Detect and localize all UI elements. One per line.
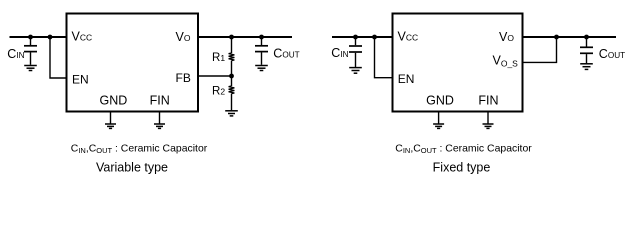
node R1 junction [229,35,234,40]
node Vo_s junction [554,35,559,40]
svg-text:GND: GND [100,94,128,108]
ground COUT right [580,64,593,70]
wire input right [332,36,393,38]
wire GND pin [110,113,112,124]
ground GND pin right [433,124,444,128]
ground COUT [255,66,268,71]
node COUT junction [259,35,264,40]
svg-text:FIN: FIN [150,94,170,108]
ground CIN right [349,68,362,74]
wire input left [10,36,67,38]
svg-text:VO: VO [499,30,514,44]
IC box U1 [67,14,199,112]
capacitor COUT [255,37,268,65]
wire FIN pin right [487,113,489,124]
node CIN junction right [353,35,358,40]
resistor R2 [229,76,235,110]
svg-text:VO_S: VO_S [493,54,519,69]
ground R2 [225,111,238,116]
capacitor CIN right [349,37,362,67]
svg-text:FIN: FIN [478,94,498,108]
wire EN branch [50,37,67,78]
wire FB [198,75,232,77]
ground FIN pin right [483,124,494,128]
node CIN junction [28,35,33,40]
capacitor COUT right [580,37,593,63]
node FB junction [229,74,234,79]
svg-text:CIN,COUT : Ceramic Capacitor: CIN,COUT : Ceramic Capacitor [71,144,208,156]
wire output Vo [198,36,292,38]
ground FIN pin [154,124,165,128]
svg-text:VO: VO [176,30,191,44]
node COUT junction right [584,35,589,40]
wire EN branch right [375,37,394,78]
svg-text:FB: FB [176,71,191,85]
capacitor C_IN [24,37,37,65]
node EN junction [48,35,53,40]
ground GND pin [105,124,116,128]
svg-text:R2: R2 [212,86,225,98]
svg-text:R1: R1 [212,52,225,64]
resistor R1 [229,37,235,76]
node EN junction right [372,35,377,40]
wire GND pin right [438,113,440,124]
svg-text:CIN: CIN [331,46,348,60]
svg-text:COUT: COUT [599,47,625,61]
svg-text:VCC: VCC [72,29,93,43]
svg-text:VCC: VCC [398,29,419,43]
svg-text:EN: EN [72,72,89,86]
wire FIN pin [159,113,161,124]
ground CIN [24,66,37,71]
wire Vo_s feedback [523,37,557,62]
svg-text:Fixed type: Fixed type [433,161,491,175]
svg-text:CIN,COUT : Ceramic Capacitor: CIN,COUT : Ceramic Capacitor [395,144,532,156]
IC box U2 [393,14,523,112]
svg-text:Variable type: Variable type [96,161,168,175]
svg-text:EN: EN [398,72,415,86]
wire output Vo right [523,36,617,38]
svg-text:GND: GND [426,94,454,108]
svg-text:CIN: CIN [7,47,24,61]
svg-text:COUT: COUT [273,46,299,60]
